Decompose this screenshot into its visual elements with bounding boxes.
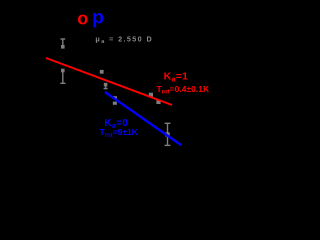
data point pair x=63 lower: square + downward whisker xyxy=(60,69,65,84)
svg-text:Ka=1: Ka=1 xyxy=(164,71,189,84)
blue data point x=167 with large error bar xyxy=(165,123,171,145)
svg-text:p: p xyxy=(92,7,104,29)
data point x=151 upper square xyxy=(149,93,153,97)
fit line ortho (red) xyxy=(46,58,172,105)
blue data point x=115 lower square xyxy=(113,102,117,105)
blue data point x=115 upper square xyxy=(113,96,117,99)
data point x=158 lower square xyxy=(156,100,160,104)
fit line para (blue) xyxy=(105,92,181,145)
data point x=106 lower square + short whisker xyxy=(104,83,108,89)
data point x=102 upper square xyxy=(100,70,104,74)
svg-text:o: o xyxy=(77,9,88,29)
data point pair x=63 upper: square + upward whisker xyxy=(60,39,65,49)
